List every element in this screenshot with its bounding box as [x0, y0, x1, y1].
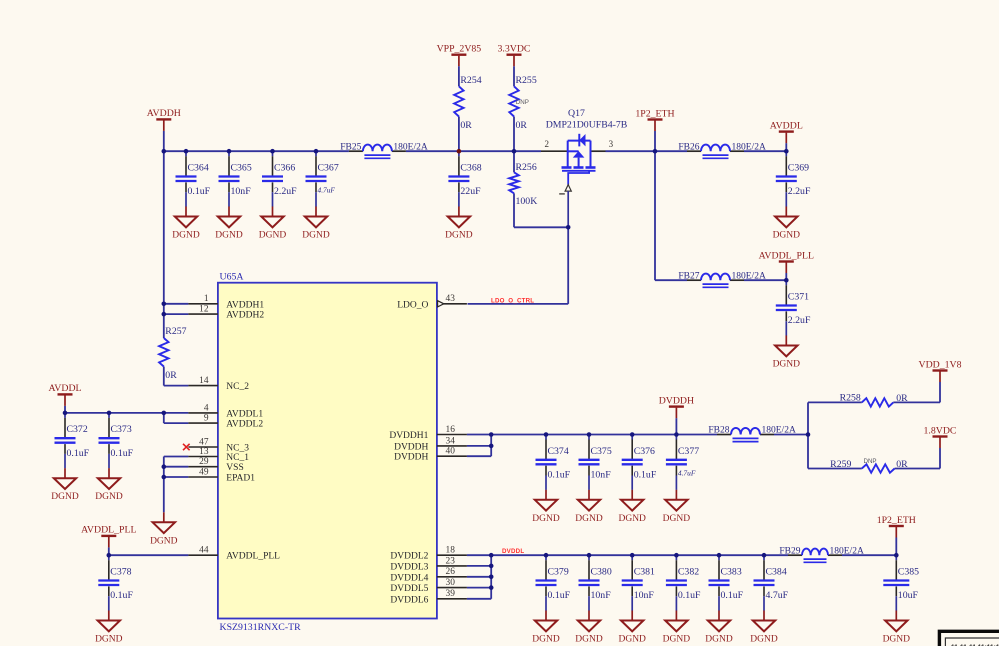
capacitor C382: [666, 555, 701, 610]
wire VPP_2V85 stub: [458, 66, 460, 86]
ground DGND: [532, 490, 560, 524]
capacitor C380: [579, 555, 612, 610]
svg-text:U65A: U65A: [220, 272, 244, 283]
svg-text:4.7uF: 4.7uF: [318, 185, 336, 194]
svg-text:180E/2A: 180E/2A: [762, 426, 796, 436]
wire DVDDH bus: [467, 434, 717, 436]
U65A pin 44 AVDDL_PLL: [188, 546, 280, 562]
svg-text:AVDDL2: AVDDL2: [226, 420, 263, 430]
svg-text:FB26: FB26: [678, 142, 699, 152]
junction at 491.2,434.5: [489, 432, 494, 437]
svg-text:DGND: DGND: [618, 635, 646, 645]
ground DGND: [750, 611, 778, 645]
svg-text:DGND: DGND: [302, 231, 330, 241]
U65A pin 49 EPAD1: [188, 467, 255, 483]
wire DVDDL branch vertical pins 23 26 30 39: [490, 555, 492, 599]
ground DGND: [51, 468, 79, 502]
svg-text:26: 26: [446, 567, 456, 577]
ground DGND: [215, 207, 243, 241]
ground DGND: [575, 490, 603, 524]
capacitor C368: [448, 151, 481, 206]
ground DGND VSS: [150, 522, 178, 546]
IC U65A KSZ9131RNXC-TR body: [218, 272, 437, 634]
power port DVDDH: [659, 395, 694, 418]
U65A pin 1 AVDDH1: [188, 294, 264, 310]
resistor R259: [830, 458, 908, 473]
svg-text:44: 44: [199, 546, 209, 556]
wire AVDDL left stub: [64, 406, 66, 413]
Q17 gate bar: [562, 170, 596, 172]
svg-text:0.1uF: 0.1uF: [111, 448, 134, 459]
wire AVDDL_PLL stub right: [785, 273, 787, 280]
junction at 546,555.2: [544, 553, 549, 558]
svg-text:43: 43: [446, 294, 456, 304]
capacitor C381: [622, 555, 655, 610]
capacitor C377: [666, 435, 699, 490]
svg-text:1P2_ETH: 1P2_ETH: [635, 108, 674, 119]
power port AVDDL_PLL: [759, 250, 814, 273]
wire DVDDL bus: [467, 554, 788, 556]
resistor R257: [159, 326, 187, 381]
svg-text:C375: C375: [591, 446, 612, 457]
svg-text:0.1uF: 0.1uF: [721, 590, 744, 601]
svg-text:FB28: FB28: [708, 426, 729, 436]
svg-text:DGND: DGND: [575, 635, 603, 645]
junction at 491.2,576.8: [489, 575, 494, 580]
svg-text:180E/2A: 180E/2A: [393, 142, 427, 152]
power port 1P2_ETH: [635, 108, 674, 131]
wire R258 R259 split vertical: [807, 402, 809, 468]
svg-text:C378: C378: [110, 567, 131, 578]
svg-text:C365: C365: [231, 163, 252, 174]
svg-text:3: 3: [609, 139, 614, 149]
svg-text:DGND: DGND: [95, 492, 123, 502]
svg-text:23: 23: [446, 556, 456, 566]
svg-text:C368: C368: [460, 163, 481, 174]
power port AVDDH: [147, 108, 181, 131]
junction at 676.4,555.2: [674, 553, 679, 558]
svg-text:0R: 0R: [896, 393, 908, 404]
capacitor C374: [536, 435, 571, 490]
U65A pin 40 DVDDH: [394, 447, 467, 463]
U65A pin 9 AVDDL2: [188, 414, 263, 430]
ferrite bead FB28: [708, 426, 796, 442]
svg-text:C367: C367: [318, 163, 339, 174]
svg-text:10nF: 10nF: [634, 590, 655, 601]
svg-text:AVDDH2: AVDDH2: [226, 311, 264, 321]
svg-text:KSZ9131RNXC-TR: KSZ9131RNXC-TR: [220, 622, 302, 633]
wire R256 top lead: [513, 151, 515, 172]
ground DGND: [95, 611, 123, 645]
junction at 786.3,151.2: [784, 149, 789, 154]
svg-text:DGND: DGND: [773, 360, 801, 370]
resistor R258: [840, 392, 909, 406]
wire AVDDL_PLL to pin 44: [109, 554, 189, 556]
svg-text:DGND: DGND: [663, 635, 691, 645]
junction at 546,434.5: [544, 432, 549, 437]
svg-text:100K: 100K: [516, 196, 538, 207]
wire DVDDH power stub: [675, 418, 677, 434]
svg-text:0.1uF: 0.1uF: [67, 448, 90, 459]
wire AVDDL left bus to pin 4: [65, 412, 188, 414]
resistor R255: [509, 75, 537, 131]
svg-text:DGND: DGND: [883, 635, 911, 645]
svg-text:0.1uF: 0.1uF: [678, 590, 701, 601]
svg-text:16: 16: [446, 425, 456, 435]
svg-text:10uF: 10uF: [898, 590, 919, 601]
svg-text:AVDDL: AVDDL: [770, 120, 803, 131]
svg-text:R256: R256: [516, 162, 537, 173]
Q17 gate pin arrow: [565, 185, 571, 192]
svg-text:180E/2A: 180E/2A: [732, 271, 766, 281]
svg-text:R259: R259: [830, 459, 851, 470]
wire R258 right lead to VDD_1V8: [893, 401, 940, 403]
svg-text:DGND: DGND: [150, 536, 178, 546]
svg-text:R257: R257: [165, 326, 186, 337]
svg-text:DGND: DGND: [575, 514, 603, 524]
Q17 channel bars: [562, 166, 572, 169]
U65A pin 13 NC_1: [188, 447, 249, 463]
svg-text:DVDDL6: DVDDL6: [390, 595, 428, 605]
wire pin 29 VSS: [164, 466, 189, 468]
svg-text:FB29: FB29: [779, 546, 800, 556]
capacitor C376: [622, 435, 657, 490]
wire VSS EPAD vertical to ground: [163, 457, 165, 513]
svg-text:LDO_O_CTRL: LDO_O_CTRL: [491, 298, 534, 305]
ground DGND: [172, 207, 200, 241]
svg-text:C379: C379: [548, 567, 569, 578]
svg-text:DNP: DNP: [864, 458, 877, 465]
svg-text:LDO_O: LDO_O: [397, 300, 428, 310]
svg-text:C382: C382: [678, 567, 699, 578]
wire FB27 to AVDDL_PLL: [744, 279, 786, 281]
U65A pin 26 DVDDL4: [390, 567, 467, 583]
Q17 gate lead: [568, 171, 589, 185]
title block border corner: [939, 631, 999, 646]
ground DGND: [773, 207, 801, 241]
U65A pin 39 DVDDL6: [390, 589, 467, 605]
junction at R254 (maroon): [457, 149, 462, 154]
svg-text:1.8VDC: 1.8VDC: [924, 425, 957, 436]
ground DGND: [302, 207, 330, 241]
Q17 channel arrow: [573, 151, 585, 158]
power port 3.3VDC: [498, 44, 531, 67]
U65A pin 14 NC_2: [188, 376, 249, 392]
svg-text:R258: R258: [840, 392, 861, 403]
svg-text:AVDDL_PLL: AVDDL_PLL: [226, 552, 280, 562]
capacitor C378: [98, 555, 133, 610]
svg-text:NC_1: NC_1: [226, 453, 249, 463]
svg-text:0.1uF: 0.1uF: [548, 590, 571, 601]
wire R259 right lead to 1.8VDC: [895, 468, 940, 470]
svg-text:0R: 0R: [165, 370, 177, 381]
svg-text:C383: C383: [721, 567, 742, 578]
svg-text:C385: C385: [898, 567, 919, 578]
junction at 163.8,466.7: [162, 464, 167, 469]
svg-text:Q17: Q17: [568, 108, 585, 119]
svg-text:C366: C366: [274, 163, 295, 174]
U65A pin 29 VSS: [188, 457, 243, 473]
svg-text:FB27: FB27: [678, 271, 699, 281]
svg-text:18: 18: [446, 546, 456, 556]
svg-text:10nF: 10nF: [591, 470, 612, 481]
junction at 65,412.9: [63, 411, 68, 416]
ground DGND: [663, 611, 691, 645]
U65A pin 4 AVDDL1: [188, 403, 263, 419]
capacitor C367: [306, 151, 339, 206]
capacitor C372: [55, 413, 90, 468]
Q17 body diode top: [578, 134, 580, 147]
svg-text:C372: C372: [67, 424, 88, 435]
wire R255 bottom lead: [513, 117, 515, 152]
ground DGND: [663, 490, 691, 524]
svg-text:29: 29: [199, 457, 209, 467]
svg-text:AVDDL1: AVDDL1: [226, 409, 263, 419]
wire pin 13 NC_1: [164, 456, 189, 458]
junction at 316,151.2: [314, 149, 319, 154]
U65A pin 34 DVDDH: [394, 436, 467, 452]
junction at 163.8,151.2: [162, 149, 167, 154]
power port AVDDL: [770, 120, 803, 143]
junction at 568.2,227.3: [566, 225, 571, 230]
junction at 764,555.2: [762, 553, 767, 558]
svg-text:0R: 0R: [896, 459, 908, 470]
wire R257 top lead: [163, 314, 165, 338]
wire Q17 gate to LDO_O node: [567, 227, 569, 304]
svg-text:30: 30: [446, 578, 456, 588]
svg-text:4: 4: [204, 403, 209, 413]
svg-text:0R: 0R: [460, 120, 472, 131]
junction at 491.2,445.9: [489, 444, 494, 449]
junction at 229,151.2: [227, 149, 232, 154]
power port VDD_1V8: [919, 359, 962, 382]
U65A pin 23 DVDDL3: [390, 556, 467, 572]
svg-text:0R: 0R: [516, 120, 528, 131]
svg-text:0.1uF: 0.1uF: [634, 470, 657, 481]
svg-text:13: 13: [199, 447, 209, 457]
power port AVDDL: [48, 383, 81, 406]
svg-text:DGND: DGND: [705, 635, 733, 645]
capacitor C379: [536, 555, 571, 610]
junction at 632.2,555.2: [630, 553, 635, 558]
wire pin 1: [164, 303, 189, 305]
svg-text:C369: C369: [788, 163, 809, 174]
svg-text:DGND: DGND: [618, 514, 646, 524]
wire pin 49 EPAD1: [164, 476, 189, 478]
svg-text:DVDDL3: DVDDL3: [390, 562, 428, 572]
ground DGND: [618, 490, 646, 524]
wire red stem VSS ground: [163, 512, 165, 522]
junction at 163.8,477: [162, 475, 167, 480]
ferrite bead FB27: [678, 271, 766, 287]
svg-text:39: 39: [446, 589, 456, 599]
junction at 896.3,555.2: [894, 553, 899, 558]
junction at 163.8,314.1: [162, 312, 167, 317]
svg-text:C376: C376: [634, 446, 655, 457]
svg-text:FB25: FB25: [340, 142, 361, 152]
svg-text:DVDDL2: DVDDL2: [390, 552, 428, 562]
wire branch to pin 9: [163, 413, 165, 423]
U65A pin 18 DVDDL2: [390, 546, 467, 562]
junction at 808,434.5: [806, 432, 811, 437]
ground DGND: [883, 611, 911, 645]
svg-text:C371: C371: [788, 292, 809, 303]
svg-text:2.2uF: 2.2uF: [788, 315, 811, 326]
ferrite bead FB26: [678, 142, 766, 158]
svg-text:DVDDH: DVDDH: [394, 453, 428, 463]
svg-text:C364: C364: [188, 163, 209, 174]
svg-text:DGND: DGND: [215, 231, 243, 241]
power port AVDDL_PLL: [81, 525, 136, 548]
pin 47 no-connect X: [183, 444, 190, 450]
svg-text:12: 12: [199, 305, 209, 315]
wire 1P2_ETH bottom stub: [895, 538, 897, 556]
svg-text:NC_2: NC_2: [226, 382, 249, 392]
svg-text:DGND: DGND: [51, 492, 79, 502]
wire AVDDH top bus: [164, 150, 349, 152]
capacitor C365: [219, 151, 252, 206]
ground DGND: [705, 611, 733, 645]
svg-text:DGND: DGND: [663, 514, 691, 524]
svg-text:C377: C377: [678, 446, 699, 457]
svg-text:EPAD1: EPAD1: [226, 474, 255, 484]
Q17 pin 3: [591, 150, 606, 152]
wire R257 bottom lead to pin 14: [163, 367, 165, 386]
junction at 719,555.2: [717, 553, 722, 558]
wire top bus FB25 to R254 R255 Q17 pin2: [406, 150, 541, 152]
ferrite bead FB29: [779, 546, 864, 562]
junction at 272.5,151.2: [270, 149, 275, 154]
Q17 body: [567, 141, 569, 167]
wire FB27 row left: [655, 279, 687, 281]
svg-text:1: 1: [204, 294, 209, 304]
svg-text:DVDDL: DVDDL: [502, 548, 524, 555]
power port 1.8VDC: [924, 425, 957, 448]
svg-text:DGND: DGND: [532, 635, 560, 645]
junction at 589,555.2: [587, 553, 592, 558]
svg-text:AVDDL: AVDDL: [48, 383, 81, 394]
svg-text:4.7uF: 4.7uF: [678, 469, 696, 478]
svg-text:1P2_ETH: 1P2_ETH: [877, 515, 916, 526]
ground DGND: [773, 336, 801, 370]
resistor R256: [509, 162, 537, 207]
capacitor C385: [883, 555, 919, 610]
svg-text:10nF: 10nF: [231, 186, 252, 197]
junction at 491.2,587.6: [489, 585, 494, 590]
U65A pin 43 LDO_O: [397, 294, 467, 310]
wire 3.3VDC stub: [513, 66, 515, 86]
svg-text:0.1uF: 0.1uF: [548, 470, 571, 481]
resistor R254: [454, 75, 482, 131]
U65A pin 16 DVDDH1: [389, 425, 467, 441]
capacitor C364: [176, 151, 211, 206]
junction at 491.2,555.2: [489, 553, 494, 558]
svg-text:40: 40: [446, 447, 456, 457]
wire FB28 to split junction: [774, 434, 808, 436]
junction at 163.8,412.9: [162, 411, 167, 416]
ground DGND: [445, 207, 473, 241]
svg-text:NC_3: NC_3: [226, 444, 249, 454]
Q17 pin 2: [541, 150, 568, 152]
svg-text:VPP_2V85: VPP_2V85: [437, 44, 482, 55]
junction at 632.2,434.5: [630, 432, 635, 437]
junction at 109,412.9: [107, 411, 112, 416]
wire AVDDL_PLL left stub: [108, 547, 110, 555]
wire 1P2_ETH stub top: [654, 131, 656, 151]
svg-text:VSS: VSS: [226, 463, 243, 473]
svg-text:C374: C374: [548, 446, 569, 457]
svg-text:DVDDH: DVDDH: [394, 442, 428, 452]
svg-text:DGND: DGND: [259, 231, 287, 241]
capacitor C369: [776, 151, 811, 206]
wire R256 bottom lead and run to gate junction: [513, 193, 515, 227]
capacitor C383: [709, 555, 744, 610]
svg-text:22uF: 22uF: [460, 186, 481, 197]
U65A pin 30 DVDDL5: [390, 578, 467, 594]
wire DVDDH branch vertical pins 34 40: [490, 435, 492, 457]
svg-text:14: 14: [199, 376, 209, 386]
wire pin 12: [164, 313, 189, 315]
capacitor C371: [776, 280, 811, 335]
svg-text:DGND: DGND: [750, 635, 778, 645]
svg-text:0.1uF: 0.1uF: [110, 590, 133, 601]
svg-text:C373: C373: [111, 424, 132, 435]
svg-text:DGND: DGND: [172, 231, 200, 241]
junction at 491.2,565.9: [489, 564, 494, 569]
svg-text:C380: C380: [591, 567, 612, 578]
ground DGND: [95, 468, 123, 502]
svg-text:AVDDL_PLL: AVDDL_PLL: [759, 250, 814, 261]
svg-text:9: 9: [204, 414, 209, 424]
svg-text:DGND: DGND: [445, 231, 473, 241]
svg-text:49: 49: [199, 467, 209, 477]
junction at 786.3,280.2: [784, 278, 789, 283]
wire AVDDH power stub: [163, 131, 165, 151]
svg-text:3.3VDC: 3.3VDC: [498, 44, 531, 55]
wire Q17 pin3 to 1P2_ETH to FB26: [606, 150, 688, 152]
ferrite bead FB25: [340, 142, 428, 158]
svg-text:DVDDH1: DVDDH1: [389, 431, 428, 441]
svg-text:DNP: DNP: [516, 99, 529, 106]
wire R258 left lead: [808, 401, 862, 403]
svg-text:4.7uF: 4.7uF: [766, 590, 789, 601]
svg-text:180E/2A: 180E/2A: [732, 142, 766, 152]
svg-text:DVDDL4: DVDDL4: [390, 573, 428, 583]
svg-text:DVDDL5: DVDDL5: [390, 584, 428, 594]
svg-text:DMP21D0UFB4-7B: DMP21D0UFB4-7B: [546, 119, 628, 130]
ground DGND: [575, 611, 603, 645]
U65A pin 12 AVDDH2: [188, 305, 264, 321]
capacitor C373: [99, 413, 134, 468]
power port VPP_2V85: [437, 44, 482, 67]
svg-text:DGND: DGND: [532, 514, 560, 524]
svg-text:34: 34: [446, 436, 456, 446]
capacitor C375: [579, 435, 612, 490]
wire LDO_O pin 43 run: [468, 303, 569, 305]
svg-text:VDD_1V8: VDD_1V8: [919, 359, 962, 370]
wire R259 left lead: [808, 468, 862, 470]
power port 1P2_ETH: [877, 515, 916, 538]
junction at 186,151.2: [184, 149, 189, 154]
capacitor C366: [262, 151, 297, 206]
wire AVDDH vertical to U65A pins 1 12: [163, 151, 165, 314]
junction at 676.4,434.5: [674, 432, 679, 437]
svg-text:C384: C384: [766, 567, 787, 578]
svg-text:AVDDH1: AVDDH1: [226, 300, 264, 310]
svg-text:R254: R254: [460, 75, 481, 86]
svg-text:2.2uF: 2.2uF: [788, 186, 811, 197]
svg-text:180E/2A: 180E/2A: [830, 546, 864, 556]
